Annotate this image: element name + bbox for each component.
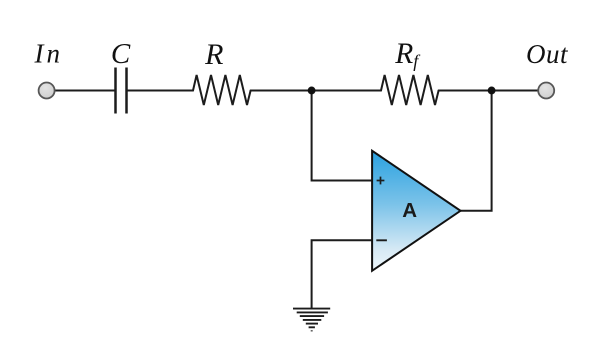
- svg-text:Out: Out: [526, 39, 569, 69]
- svg-text:In: In: [34, 39, 64, 69]
- svg-text:A: A: [402, 199, 417, 222]
- svg-text:C: C: [111, 38, 131, 70]
- svg-text:R: R: [204, 38, 223, 71]
